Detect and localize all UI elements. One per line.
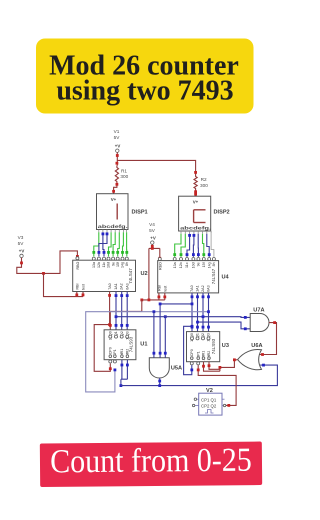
- svg-text:RBI: RBI: [75, 284, 79, 290]
- svg-text:15f: 15f: [116, 262, 120, 267]
- display DISP2: [179, 196, 212, 234]
- svg-text:300: 300: [120, 174, 128, 179]
- svg-text:10d: 10d: [107, 262, 111, 268]
- svg-text:R2: R2: [201, 177, 207, 182]
- wires DISP2 segments to U4 outputs: [173, 234, 214, 257]
- power source V4: [149, 222, 156, 244]
- svg-text:U3: U3: [222, 343, 229, 349]
- AND gate U7A: [250, 314, 269, 332]
- wires U1 MR1 MR2 to U5A output bus: [120, 360, 129, 387]
- svg-text:abcdefg.: abcdefg.: [98, 224, 128, 229]
- wire U3 CP0 loop (blue): [184, 325, 194, 375]
- wire U4 RBI test to V4: [140, 293, 166, 301]
- svg-text:8h: 8h: [125, 262, 129, 266]
- wire U1 Q0 to A0 net (red): [109, 300, 142, 330]
- wire V4 to U4 RBI/test: [148, 248, 150, 300]
- OR gate U6A (mirrored): [238, 349, 262, 369]
- wires U4 A0-A3 to U3 Q0-Q3: [191, 293, 210, 332]
- clock source V2: [192, 393, 225, 415]
- svg-text:abcdefg.: abcdefg.: [180, 226, 211, 231]
- svg-text:2A2: 2A2: [201, 285, 205, 291]
- svg-text:RBI: RBI: [157, 285, 161, 291]
- AND gate U5A: [149, 358, 169, 378]
- svg-text:+V: +V: [115, 143, 121, 148]
- svg-text:12b: 12b: [97, 262, 101, 268]
- wire U3 CP1 to V2 Q2 (red): [197, 365, 236, 407]
- wire Q1 to U7A input 1: [115, 315, 251, 319]
- decoder U2 74LS47: [73, 257, 136, 292]
- svg-text:test: test: [164, 286, 168, 292]
- svg-text:using two 7493: using two 7493: [56, 76, 233, 107]
- svg-text:+V: +V: [19, 249, 25, 254]
- wire R2 to DISP2 V+: [194, 190, 197, 196]
- svg-text:9e: 9e: [111, 262, 115, 266]
- svg-text:U6A: U6A: [251, 343, 262, 349]
- svg-text:RBO: RBO: [159, 262, 163, 270]
- DISP2 lit segments: [194, 210, 206, 223]
- svg-text:CP1 Q1: CP1 Q1: [201, 397, 217, 402]
- svg-text:U1: U1: [140, 341, 147, 347]
- counter U3 74LS93: [187, 332, 220, 365]
- svg-text:CP2 Q2: CP2 Q2: [201, 404, 217, 409]
- svg-text:test: test: [82, 284, 86, 290]
- svg-text:U7A: U7A: [253, 308, 264, 314]
- DISP1 lit segment (digit 1): [116, 204, 118, 220]
- svg-text:U5A: U5A: [171, 366, 182, 372]
- svg-text:10d: 10d: [192, 262, 196, 268]
- wire feedback bus (U1 CP1 loop): [86, 310, 210, 392]
- wires U5A inputs: [153, 303, 194, 358]
- svg-text:74LS47: 74LS47: [128, 268, 133, 284]
- resistor R2 300: [194, 171, 208, 191]
- counter U1 74LS93: [104, 330, 136, 363]
- wire V3 to U2 RBI/test: [44, 273, 85, 296]
- svg-text:1A1: 1A1: [114, 283, 118, 289]
- display DISP1: [97, 194, 129, 233]
- svg-text:R1: R1: [121, 168, 127, 173]
- svg-text:15f: 15f: [202, 262, 206, 267]
- svg-text:5V: 5V: [114, 135, 121, 140]
- power source V3: [18, 235, 25, 258]
- resistor R1 300: [115, 166, 128, 184]
- svg-text:RBO: RBO: [76, 262, 80, 270]
- svg-text:11c: 11c: [102, 262, 106, 268]
- svg-text:5V: 5V: [18, 241, 25, 246]
- wire V4 branch: [149, 244, 161, 259]
- bottom banner: [40, 441, 262, 487]
- svg-text:V4: V4: [149, 222, 155, 227]
- svg-text:V2: V2: [206, 388, 213, 394]
- title banner: [36, 39, 254, 114]
- wire V3 to U2 RBO: [17, 251, 79, 275]
- svg-text:U2: U2: [141, 271, 148, 277]
- svg-text:74LS47: 74LS47: [211, 268, 216, 284]
- wire R1 to DISP1 V+: [112, 183, 118, 194]
- svg-text:2A2: 2A2: [120, 283, 124, 289]
- svg-text:8h: 8h: [212, 262, 216, 266]
- svg-text:13a: 13a: [173, 262, 177, 268]
- svg-text:U4: U4: [222, 275, 230, 281]
- svg-text:74LS93: 74LS93: [211, 338, 216, 354]
- svg-text:13a: 13a: [92, 262, 96, 268]
- svg-text:1A1: 1A1: [196, 285, 200, 291]
- svg-text:12b: 12b: [179, 262, 183, 268]
- svg-text:6A3: 6A3: [207, 285, 211, 291]
- wires U2 A1-A3 to U1 Q1-Q3: [115, 292, 129, 330]
- wire branch to R2: [117, 160, 195, 174]
- power source V1: [114, 129, 121, 152]
- svg-text:14g: 14g: [207, 262, 211, 268]
- wire V1 to R1 and R2 branch: [116, 152, 119, 165]
- svg-text:DISP2: DISP2: [214, 210, 230, 216]
- svg-text:7A0: 7A0: [108, 283, 112, 289]
- svg-text:5V: 5V: [149, 228, 156, 233]
- svg-text:DISP1: DISP1: [132, 210, 148, 216]
- svg-text:+V: +V: [150, 235, 156, 240]
- decoder U4 74LS47: [157, 258, 218, 293]
- wire Q1(U3) to U7A input 2: [196, 321, 250, 330]
- wire U6A output to U3 MR (red): [233, 358, 237, 361]
- svg-text:300: 300: [200, 183, 208, 188]
- svg-text:V+: V+: [111, 197, 117, 202]
- wire U2 A0 red: [94, 292, 112, 372]
- wires DISP1 segments to U2 outputs: [92, 232, 128, 256]
- svg-text:11c: 11c: [185, 262, 189, 268]
- wire U7A output to U6A input (red): [260, 321, 277, 356]
- svg-text:V+: V+: [193, 199, 199, 204]
- svg-text:9e: 9e: [197, 262, 201, 266]
- svg-text:V3: V3: [18, 235, 24, 240]
- svg-text:Count from 0-25: Count from 0-25: [50, 441, 252, 480]
- wire U5A output bus: [121, 364, 278, 387]
- wires U3 MR1 MR2 to U6A output (red): [202, 360, 234, 371]
- svg-text:V1: V1: [114, 129, 120, 134]
- svg-text:7A0: 7A0: [190, 285, 194, 291]
- svg-text:74LS93: 74LS93: [129, 336, 134, 352]
